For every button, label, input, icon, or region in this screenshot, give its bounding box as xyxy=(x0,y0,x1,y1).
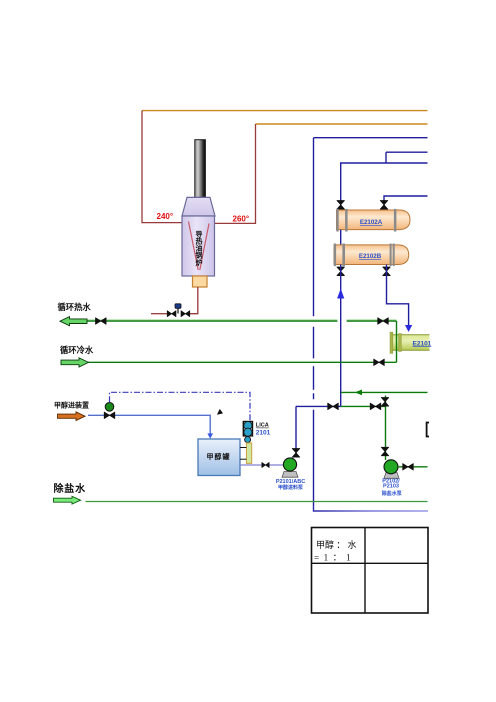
vessel E2102B xyxy=(334,245,409,265)
LICA instrument box xyxy=(243,422,252,436)
gauge connector bottom xyxy=(240,458,246,460)
svg-text:锅: 锅 xyxy=(195,251,203,260)
demin water arrow xyxy=(54,496,81,504)
burner V flame left xyxy=(189,222,199,271)
tank outlet valve xyxy=(262,462,269,467)
methanol feed arrow into tank xyxy=(207,433,213,438)
svg-text:LICA: LICA xyxy=(256,423,269,429)
methanol valve ball xyxy=(105,403,114,412)
svg-text:E2101: E2101 xyxy=(413,340,432,347)
svg-text:除盐水: 除盐水 xyxy=(54,482,87,495)
flow arrow down into E2101 xyxy=(405,325,412,332)
valve below E2102B left xyxy=(337,267,345,276)
P2101 discharge valve xyxy=(292,449,300,458)
valve on P2101 discharge horizontal xyxy=(328,403,339,410)
wire B-right to E2101 xyxy=(387,265,409,326)
blue header N8 xyxy=(384,196,428,210)
svg-text:E2102B: E2102B xyxy=(359,253,382,260)
furnace hood xyxy=(182,197,215,216)
P2102 discharge valve xyxy=(403,464,414,471)
thermal oil return line O2 xyxy=(256,123,428,125)
svg-text:甲醇罐: 甲醇罐 xyxy=(207,452,231,461)
blue header N5 xyxy=(341,163,428,210)
pump P2101 discharge wire xyxy=(296,406,341,457)
furnace left riser wire xyxy=(142,111,189,223)
hot water arrow xyxy=(60,317,87,326)
flow arrow up xyxy=(337,289,344,299)
furnace name vertical text xyxy=(195,229,203,267)
mixed water return line with arrow xyxy=(341,391,428,393)
pump P2102 discharge xyxy=(398,466,428,468)
svg-text:炉: 炉 xyxy=(196,258,203,267)
svg-text:甲醇进装置: 甲醇进装置 xyxy=(54,401,89,410)
valve above E2102A left xyxy=(337,201,345,210)
furnace outlet box xyxy=(193,276,208,287)
thermal oil supply line O1 xyxy=(142,110,428,112)
E2102B tube sheet bars xyxy=(334,244,336,267)
valve below E2102B right xyxy=(383,267,391,276)
main blue vertical N2 segmented xyxy=(313,138,315,506)
svg-text:2101: 2101 xyxy=(256,430,271,437)
furnace bottom outlet wire xyxy=(190,287,198,314)
instrument signal dash-dot xyxy=(110,392,251,421)
valve at drop top xyxy=(381,398,389,407)
vessel E2102A xyxy=(337,210,411,230)
wire B-left down xyxy=(340,265,342,407)
level gauge xyxy=(246,443,251,464)
blue header N3 xyxy=(386,152,428,163)
small black marker triangle xyxy=(217,409,223,415)
control valve actuator xyxy=(177,308,179,314)
pump P2102 xyxy=(384,473,399,479)
demin water drop line xyxy=(385,396,387,461)
hot water valve 2 xyxy=(378,318,389,325)
furnace chimney xyxy=(195,140,206,198)
svg-text:= 1 ： 1: = 1 ： 1 xyxy=(314,553,351,563)
svg-text:循环热水: 循环热水 xyxy=(58,302,92,312)
svg-text:P2103: P2103 xyxy=(383,484,399,490)
svg-text:油: 油 xyxy=(196,244,203,253)
valve above E2102A right xyxy=(380,201,388,210)
mix line valve xyxy=(370,403,381,410)
furnace right riser wire xyxy=(211,124,256,223)
return line arrow left xyxy=(355,390,362,396)
ratio table xyxy=(312,528,429,614)
svg-text:260°: 260° xyxy=(233,215,250,224)
svg-text:循环冷水: 循环冷水 xyxy=(60,345,94,355)
violet bottom line xyxy=(314,506,429,512)
green mix line xyxy=(341,405,386,407)
E2102A tube sheet bars xyxy=(336,209,338,232)
gauge connector top xyxy=(240,447,246,449)
cut bracket mark xyxy=(427,423,429,437)
svg-text:甲醇进料泵: 甲醇进料泵 xyxy=(278,484,304,491)
main blue header N1 xyxy=(314,137,428,139)
svg-text:240°: 240° xyxy=(157,212,174,221)
control valve body 1 xyxy=(167,311,176,317)
svg-text:甲醇 ： 水: 甲醇 ： 水 xyxy=(316,539,357,550)
svg-text:E2102A: E2102A xyxy=(360,219,383,226)
control valve body 2 xyxy=(181,311,190,317)
methanol block arrow xyxy=(58,412,86,421)
cold water line xyxy=(88,361,397,363)
E2101 flange bars xyxy=(390,332,393,353)
demin water supply line xyxy=(86,501,428,503)
pump P2101 xyxy=(282,472,298,478)
svg-text:热: 热 xyxy=(196,236,203,245)
cold water arrow xyxy=(61,358,89,367)
furnace body xyxy=(182,216,215,276)
methanol line valve xyxy=(104,412,115,419)
hot water line xyxy=(87,320,397,322)
hot water line highlight xyxy=(87,319,397,321)
valve above pump P2102 xyxy=(381,447,389,456)
svg-text:除盐水泵: 除盐水泵 xyxy=(382,490,403,497)
wire control valve to left xyxy=(151,313,167,315)
tank outlet line xyxy=(240,464,284,466)
hot water drop through E2101 xyxy=(396,321,398,362)
burner V flame right xyxy=(200,224,209,271)
wire between vessels xyxy=(340,230,342,245)
methanol tank xyxy=(198,439,240,476)
svg-text:导: 导 xyxy=(196,229,203,238)
cold water valve xyxy=(374,359,385,366)
methanol feed line xyxy=(88,415,210,433)
hot water valve 1 xyxy=(96,318,107,325)
LICA lower bulb xyxy=(245,437,251,443)
vessel E2101 xyxy=(392,335,430,350)
